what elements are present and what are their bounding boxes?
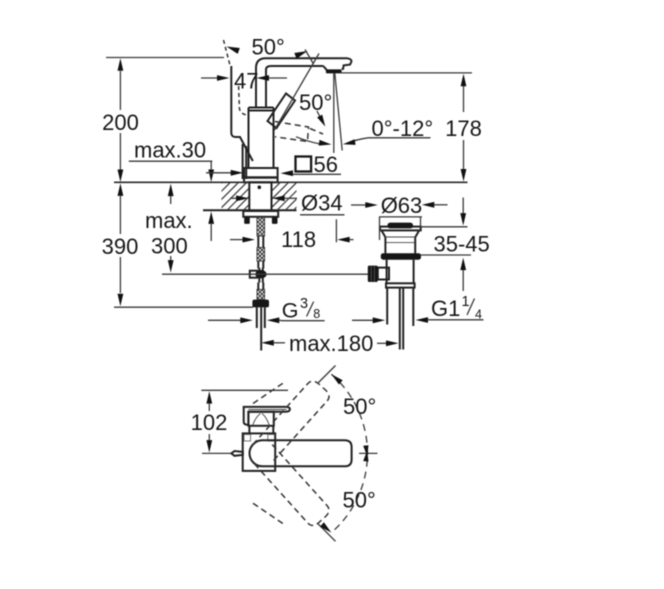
svg-text:Ø34: Ø34 [301, 191, 343, 216]
swivel spout profile (rotated position) [224, 40, 253, 179]
aerator [326, 69, 342, 73]
topview pop-up rod [202, 451, 243, 456]
hose nut [252, 300, 269, 308]
svg-text:50°: 50° [299, 90, 332, 115]
drain top flange [380, 227, 421, 231]
svg-text:50°: 50° [343, 488, 376, 513]
dimension square56 [206, 152, 341, 177]
counter top line [114, 181, 468, 183]
dimension max.180 [261, 331, 398, 356]
dimension 35-45 [420, 198, 490, 292]
dimension dia34 [230, 191, 345, 216]
drain taper [382, 230, 420, 237]
svg-text:max.30: max.30 [134, 138, 206, 163]
svg-text:178: 178 [445, 116, 482, 141]
lever handle (dashed, open position) [275, 122, 323, 142]
dimension max.30 [129, 138, 214, 242]
topview neck [249, 426, 273, 434]
svg-text:Ø63: Ø63 [381, 193, 423, 218]
svg-text:200: 200 [102, 110, 139, 135]
svg-text:50°: 50° [343, 394, 376, 419]
drain rod knob [368, 266, 389, 282]
label 50deg lower [343, 488, 376, 513]
faucet shank [249, 182, 271, 211]
drain plug cap [388, 223, 414, 229]
dimension 50deg swivel [227, 35, 314, 65]
svg-text:118: 118 [281, 227, 316, 252]
topview lever shaft [248, 412, 273, 426]
svg-text:35-45: 35-45 [434, 232, 490, 257]
faucet body [249, 108, 274, 169]
water stream reference lines [334, 73, 342, 153]
dimension 47 [201, 69, 287, 94]
dimension G3/8 [208, 296, 325, 323]
drain upper cylinder [385, 237, 415, 253]
label 50deg upper [343, 394, 376, 419]
svg-text:47: 47 [234, 69, 258, 94]
svg-text:3: 3 [300, 296, 308, 312]
drain body [387, 260, 414, 284]
pop-up rod tee [250, 268, 267, 283]
dimension max.300 [145, 184, 193, 273]
svg-text:390: 390 [102, 234, 139, 259]
dimension dia63 [351, 193, 448, 240]
lever handle (solid, closed position) [268, 94, 296, 129]
svg-text:50°: 50° [252, 35, 285, 60]
topview body [243, 433, 276, 471]
svg-text:1: 1 [462, 294, 470, 310]
dimension 118 [230, 219, 354, 252]
mounting flange [243, 211, 278, 217]
swivel arc 50deg range [318, 366, 378, 542]
svg-text:G: G [282, 298, 299, 322]
svg-text:max.: max. [145, 208, 193, 233]
drain tailpipe [387, 288, 413, 350]
drain bottom flange [386, 283, 415, 287]
horizontal spout pipe [266, 58, 348, 66]
lever axis line [275, 54, 320, 131]
spout head [323, 58, 351, 70]
topview lever grip [244, 407, 290, 425]
swivel position dashed (lower) [253, 445, 329, 526]
faucet base plate [244, 168, 278, 182]
dimension 390 [102, 183, 253, 307]
svg-text:102: 102 [191, 410, 228, 435]
svg-text:8: 8 [313, 307, 320, 321]
flexible hoses [257, 307, 265, 350]
dimension 200 [102, 58, 224, 183]
dimension G1 1/4 [352, 294, 484, 323]
pop-up rod [162, 273, 368, 275]
spout riser pipe [256, 58, 272, 108]
mounting bolts [244, 217, 277, 224]
threaded shank and hose threads [257, 217, 265, 299]
swivel position dashed (upper) [253, 381, 329, 462]
svg-text:300: 300 [151, 233, 188, 258]
dimension 0-12deg [343, 116, 433, 145]
dimension 50deg lever [296, 90, 332, 146]
dimension 102 [191, 390, 288, 452]
dimension 178 [340, 73, 482, 182]
svg-text:G1: G1 [431, 296, 460, 321]
svg-text:max.180: max.180 [289, 331, 373, 356]
svg-text:4: 4 [475, 307, 482, 321]
drain rubber seal [381, 253, 421, 260]
deck cross-section hatching [195, 183, 321, 210]
topview spout [250, 440, 352, 466]
svg-text:56: 56 [314, 152, 338, 177]
